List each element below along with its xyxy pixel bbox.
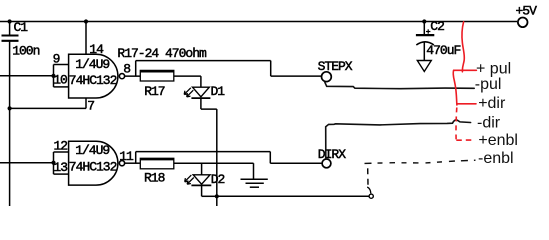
svg-text:470uF: 470uF [426, 43, 460, 58]
LED D1 arrows [184, 88, 193, 97]
svg-text:11: 11 [119, 149, 134, 164]
junction gate2 inputs [51, 161, 55, 165]
svg-text:12: 12 [54, 138, 68, 153]
LED D2 [191, 172, 224, 187]
ground symbol [241, 179, 268, 187]
wire STEPX net [136, 61, 322, 77]
junction pin7 / left rail [8, 106, 12, 110]
LED D2 arrows [185, 175, 194, 184]
wire bottom horizontal [217, 195, 369, 197]
svg-text:9: 9 [53, 51, 60, 66]
svg-text:+dir: +dir [478, 95, 506, 112]
switch contact pad [367, 187, 373, 198]
svg-text:R17-24 470ohm: R17-24 470ohm [117, 46, 207, 61]
wire DIRX net [136, 152, 322, 164]
junction bottom rail [215, 194, 219, 198]
svg-text:1/4U9: 1/4U9 [75, 57, 109, 72]
resistor R18 [140, 158, 174, 185]
svg-text:-dir: -dir [477, 114, 501, 131]
svg-text:100n: 100n [12, 43, 39, 58]
svg-text:74HC132: 74HC132 [69, 73, 117, 88]
svg-text:-enbl: -enbl [478, 150, 514, 167]
svg-text:1/4U9: 1/4U9 [75, 143, 109, 158]
svg-text:DIRX: DIRX [318, 147, 346, 162]
wire +5V top rail [0, 21, 517, 23]
hand-drawn black dashed wire -enbl [365, 160, 476, 163]
pin 14 wire [86, 22, 104, 58]
svg-text:R18: R18 [144, 171, 165, 186]
wire R17 to D1 [174, 76, 201, 87]
wire D2 cathode to rail [202, 185, 217, 196]
wire pin8 to R17 [125, 75, 141, 77]
hand-drawn red dashed wire +enbl [456, 108, 475, 141]
svg-text:74HC132: 74HC132 [69, 159, 117, 174]
svg-text:-pul: -pul [475, 76, 502, 93]
svg-text:D2: D2 [211, 172, 225, 187]
svg-text:+5V: +5V [516, 4, 538, 19]
wire left vertical rail [9, 42, 11, 206]
hand-drawn black wire DIRX to -dir [326, 120, 471, 159]
supply pad +5V [516, 4, 538, 28]
wire gate2 input net [0, 152, 69, 174]
wire gate1 input net [0, 65, 69, 87]
LED D1 [191, 84, 225, 99]
wire center vertical rail [216, 109, 218, 206]
svg-text:R17: R17 [144, 84, 165, 99]
junction C2 / top rail [422, 19, 426, 23]
svg-text:8: 8 [123, 62, 130, 77]
svg-text:+enbl: +enbl [478, 132, 518, 149]
NAND gate U9A 74HC132 [69, 54, 125, 98]
wire R18 output net to ground [174, 163, 254, 179]
pad STEPX [318, 59, 353, 81]
dashed wire to -enbl tap [367, 168, 369, 185]
wire pin11 to R18 [125, 162, 140, 164]
svg-text:13: 13 [53, 160, 67, 175]
svg-text:14: 14 [89, 42, 104, 57]
svg-text:C1: C1 [14, 20, 29, 35]
svg-text:7: 7 [87, 98, 94, 113]
svg-text:STEPX: STEPX [318, 59, 353, 74]
junction gate1 inputs [51, 74, 55, 78]
resistor R17 [140, 70, 174, 99]
junction C1 / top rail [8, 19, 12, 23]
capacitor C2 [416, 19, 461, 60]
svg-text:C2: C2 [430, 19, 444, 34]
wire D1 cathode to rail [201, 98, 217, 109]
junction pin14 / top rail [84, 19, 88, 23]
pad DIRX [318, 147, 346, 168]
capacitor C1 [2, 20, 40, 58]
svg-text:10: 10 [53, 73, 67, 88]
supply ground triangle [417, 61, 431, 72]
NAND gate U9B 74HC132 [69, 141, 125, 185]
hand-drawn red wire +pul / +dir [453, 22, 476, 105]
svg-text:D1: D1 [211, 84, 226, 99]
wire D2 anode tap [201, 163, 203, 175]
hand-drawn black wire STEPX to -pul [325, 82, 474, 88]
pin 7 wire [10, 98, 95, 113]
